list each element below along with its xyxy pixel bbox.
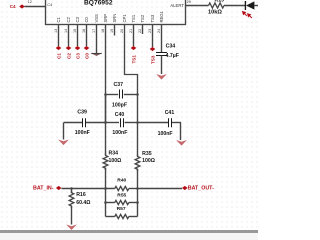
- svg-text:60.4Ω: 60.4Ω: [76, 200, 90, 206]
- main bottom wire left: [62, 188, 115, 190]
- junction dots R55 row: [104, 201, 107, 204]
- svg-text:17: 17: [92, 29, 96, 33]
- svg-text:23: 23: [148, 29, 152, 33]
- svg-text:TS3: TS3: [150, 14, 155, 22]
- svg-text:19: 19: [110, 29, 114, 33]
- pin 22 stub: [142, 25, 144, 35]
- wire C34 to ground: [161, 56, 163, 75]
- right rail of parallel block: [137, 189, 139, 217]
- wire C37 row left: [106, 94, 119, 96]
- ground arrow below R16: [66, 224, 77, 230]
- capacitor C41: [169, 118, 172, 127]
- wire pin 14: [68, 25, 70, 47]
- rail B lower segment: [137, 169, 139, 188]
- LED arrows: [243, 12, 252, 18]
- net flag C1 diamond: [56, 46, 62, 50]
- wire pin 23: [152, 25, 154, 48]
- svg-text:100Ω: 100Ω: [109, 158, 122, 164]
- ground arrow below C41: [176, 140, 187, 146]
- wire pin 20 jog to rail B: [125, 25, 138, 95]
- wire pin 24 to C34: [161, 25, 163, 53]
- svg-text:4.7µF: 4.7µF: [166, 53, 179, 59]
- wire pin 15: [77, 25, 79, 47]
- resistor R34: [103, 154, 108, 171]
- capacitor C39: [83, 118, 86, 127]
- IC U1 BQ76952 body: [46, 0, 186, 25]
- junction dots C37 row: [104, 93, 107, 96]
- wire C41 row left: [138, 122, 169, 124]
- svg-text:C39: C39: [77, 110, 87, 116]
- capacitor C40: [121, 118, 124, 127]
- junction dot R16: [70, 187, 73, 190]
- svg-text:BAT_IN-: BAT_IN-: [33, 185, 54, 191]
- sheet background: [0, 0, 258, 230]
- svg-text:R16: R16: [76, 192, 86, 198]
- svg-text:VSS: VSS: [94, 14, 99, 23]
- svg-text:C3: C3: [75, 16, 80, 22]
- svg-text:100pF: 100pF: [112, 102, 127, 108]
- svg-text:21: 21: [129, 29, 133, 33]
- svg-text:13: 13: [54, 29, 58, 33]
- svg-text:C4: C4: [47, 2, 53, 7]
- net flag C2 diamond: [66, 46, 72, 50]
- capacitor C34: [156, 53, 167, 56]
- svg-text:REG1: REG1: [159, 10, 164, 22]
- wire pin 13: [58, 25, 60, 47]
- net flag TS1 diamond: [131, 46, 137, 50]
- net flag C0 diamond: [84, 46, 90, 50]
- junction dots C40 row: [104, 121, 107, 124]
- wire pin 16: [86, 25, 88, 47]
- svg-text:C3: C3: [75, 53, 80, 59]
- svg-text:C0: C0: [84, 53, 89, 59]
- svg-text:100nF: 100nF: [75, 130, 90, 136]
- svg-text:14: 14: [64, 29, 68, 33]
- left rail of parallel block: [105, 189, 107, 217]
- wire ALERT pin to resistor: [186, 5, 209, 7]
- ground arrow below C39: [58, 140, 69, 146]
- svg-text:SRN: SRN: [112, 14, 117, 23]
- svg-text:C37: C37: [114, 82, 124, 88]
- svg-text:TS3: TS3: [150, 55, 155, 64]
- svg-text:20: 20: [120, 29, 124, 33]
- wire C41 row right: [172, 122, 181, 124]
- wire pin 18 / rail A upper: [105, 25, 107, 156]
- wire C41 right to ground: [180, 123, 182, 140]
- svg-text:R55: R55: [117, 193, 126, 199]
- svg-text:TS2: TS2: [140, 14, 145, 22]
- net flag C4 diamond: [19, 4, 25, 8]
- wire C40 row right: [125, 122, 138, 124]
- svg-text:C34: C34: [166, 44, 176, 50]
- svg-text:C4: C4: [10, 4, 16, 9]
- svg-text:10kΩ: 10kΩ: [208, 10, 222, 16]
- svg-text:C40: C40: [115, 112, 125, 118]
- svg-text:C1: C1: [56, 53, 61, 59]
- main bottom wire right: [138, 188, 183, 190]
- sheet bottom edge band: [0, 230, 258, 233]
- wire C39 left to ground: [63, 123, 65, 140]
- svg-text:TS1: TS1: [131, 14, 136, 22]
- svg-text:BAT_OUT-: BAT_OUT-: [188, 185, 214, 191]
- svg-text:BQ76952: BQ76952: [84, 0, 113, 6]
- wire pin 12 to net C4: [25, 6, 46, 8]
- wire pin 17: [96, 25, 98, 54]
- svg-text:100Ω: 100Ω: [142, 158, 155, 164]
- net flag C3 diamond: [75, 46, 81, 50]
- wire C40 row left: [106, 122, 120, 124]
- main wire between R40 and rail B: [129, 188, 138, 190]
- svg-text:22: 22: [138, 29, 142, 33]
- junction dots on main wire: [104, 187, 107, 190]
- net flag BAT_IN- diamond: [56, 186, 62, 190]
- svg-text:R34: R34: [109, 151, 119, 157]
- svg-text:SRP: SRP: [103, 14, 108, 23]
- svg-text:12: 12: [28, 0, 32, 4]
- wire resistor to LED D1: [224, 5, 245, 7]
- ground (earth dart) at pin 17: [91, 54, 101, 57]
- wire R16 to ground: [71, 206, 73, 225]
- svg-text:R40: R40: [117, 178, 126, 184]
- svg-text:16: 16: [82, 29, 86, 33]
- wire junction to R16: [71, 189, 73, 194]
- ground arrow below C34: [156, 74, 167, 80]
- svg-text:R35: R35: [142, 151, 152, 157]
- rail A segment C37..C40: [105, 94, 107, 123]
- resistor R35: [135, 155, 140, 172]
- resistor R40 (on main wire): [115, 186, 129, 190]
- resistor R16: [69, 191, 74, 208]
- svg-text:CP1: CP1: [122, 14, 127, 23]
- wire C39 row right: [86, 122, 106, 124]
- svg-text:15: 15: [73, 29, 77, 33]
- svg-text:100nF: 100nF: [158, 131, 173, 137]
- svg-text:100nF: 100nF: [112, 130, 127, 136]
- resistor R55: [106, 202, 115, 204]
- rail A lower segment: [105, 168, 107, 188]
- wire C37 row right: [124, 94, 138, 96]
- svg-text:24: 24: [157, 29, 161, 33]
- wire C39 row left: [64, 122, 83, 124]
- resistor R19 (label cut off): [209, 3, 225, 8]
- svg-text:C2: C2: [66, 53, 71, 59]
- pin 19 stub: [114, 25, 116, 36]
- rail B segment C37..R35: [137, 94, 139, 156]
- svg-text:C0: C0: [84, 16, 89, 22]
- svg-text:TS1: TS1: [131, 55, 136, 64]
- svg-text:ALERT: ALERT: [170, 3, 184, 8]
- net flag BAT_OUT- diamond: [182, 186, 188, 190]
- svg-text:C1: C1: [56, 16, 61, 22]
- svg-text:R19: R19: [215, 0, 225, 3]
- svg-text:C2: C2: [66, 16, 71, 22]
- svg-text:C41: C41: [165, 110, 175, 116]
- svg-text:R57: R57: [117, 206, 126, 212]
- resistor R57: [106, 216, 115, 218]
- svg-text:18: 18: [101, 29, 105, 33]
- svg-text:29: 29: [187, 0, 191, 4]
- wire pin 21: [133, 25, 135, 47]
- LED D1 triangle: [246, 1, 254, 9]
- net flag TS3 diamond: [150, 47, 156, 51]
- capacitor C37: [120, 90, 123, 99]
